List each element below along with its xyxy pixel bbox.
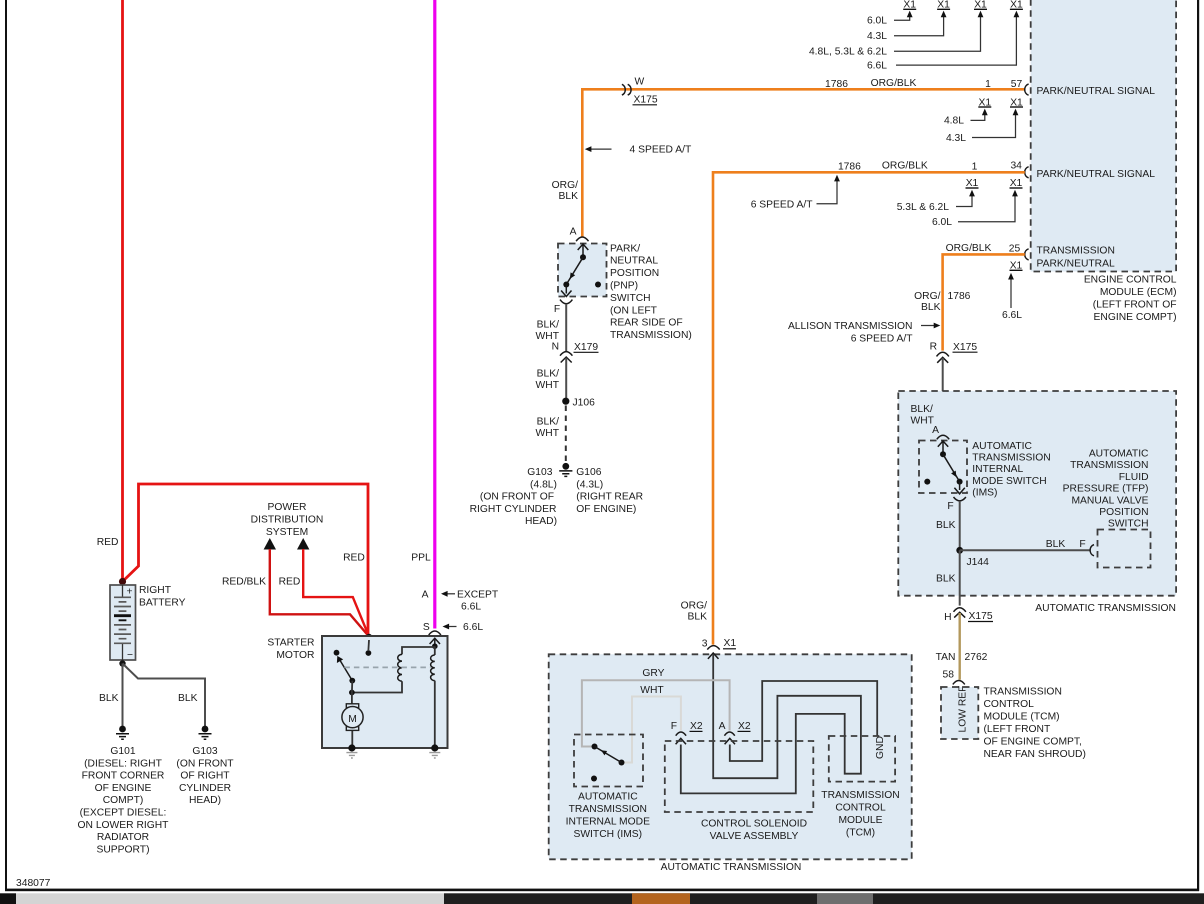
wire BLK/WHT N to J106	[565, 358, 567, 401]
svg-text:F: F	[671, 721, 677, 732]
svg-text:RIGHT: RIGHT	[139, 585, 172, 596]
connector X1 row4 (6.6L)	[1002, 260, 1023, 321]
svg-text:6.6L: 6.6L	[1002, 310, 1022, 321]
svg-text:(ON FRONT OF: (ON FRONT OF	[480, 492, 554, 503]
svg-text:ORG/: ORG/	[552, 180, 578, 191]
node starter ground right	[431, 744, 438, 751]
ground G103 (battery)	[199, 726, 212, 740]
svg-text:1786: 1786	[825, 79, 848, 90]
svg-text:MODE SWITCH: MODE SWITCH	[972, 476, 1046, 487]
wire BLK/WHT F to N	[565, 304, 567, 352]
svg-text:BLK: BLK	[921, 302, 941, 313]
wire BLK/WHT dashed J106 to ground	[565, 406, 567, 463]
svg-text:PARK/NEUTRAL: PARK/NEUTRAL	[1037, 259, 1115, 270]
svg-text:CYLINDER: CYLINDER	[179, 783, 231, 794]
svg-text:AUTOMATIC: AUTOMATIC	[1089, 449, 1149, 460]
connector S arc	[429, 631, 441, 635]
pin 3 arrow	[708, 653, 719, 659]
label ECM location	[1084, 275, 1177, 324]
svg-text:WHT: WHT	[640, 685, 664, 696]
svg-text:COMPT): COMPT)	[103, 795, 144, 806]
svg-text:TRANSMISSION: TRANSMISSION	[1070, 460, 1148, 471]
node battery positive junction	[119, 578, 126, 585]
connector pin 57 arc	[1025, 84, 1029, 95]
svg-text:348077: 348077	[16, 878, 51, 889]
svg-text:X2: X2	[690, 721, 703, 732]
svg-text:+: +	[127, 587, 133, 598]
svg-text:BLK/: BLK/	[537, 417, 559, 428]
svg-text:INTERNAL MODE: INTERNAL MODE	[566, 816, 650, 827]
wire RED branch to starter motor	[123, 484, 369, 636]
svg-text:SWITCH: SWITCH	[610, 293, 651, 304]
ground starter left	[346, 753, 357, 758]
ground G103/G106	[559, 463, 572, 477]
svg-text:ORG/BLK: ORG/BLK	[882, 160, 928, 171]
svg-text:6.0L: 6.0L	[867, 16, 887, 27]
svg-text:(ON FRONT: (ON FRONT	[176, 758, 234, 769]
svg-text:ORG/BLK: ORG/BLK	[946, 243, 992, 254]
svg-text:X175: X175	[634, 95, 658, 106]
wire WHT	[622, 697, 681, 763]
node switch contact left	[334, 650, 340, 656]
motor M	[342, 693, 363, 749]
svg-text:A: A	[932, 425, 939, 436]
node starter ground left	[348, 744, 355, 751]
svg-text:57: 57	[1011, 79, 1023, 90]
svg-text:1: 1	[985, 79, 991, 90]
svg-text:WHT: WHT	[536, 428, 560, 439]
svg-text:W: W	[635, 77, 645, 88]
svg-text:WHT: WHT	[536, 331, 560, 342]
svg-text:MODULE (ECM): MODULE (ECM)	[1100, 287, 1177, 298]
svg-text:ORG/: ORG/	[914, 291, 940, 302]
label G106 (4.3L)	[576, 467, 643, 515]
svg-text:ORG/BLK: ORG/BLK	[871, 78, 917, 89]
svg-text:OF ENGINE: OF ENGINE	[95, 783, 152, 794]
wire ORG/BLK 6-speed (to ECM 34)	[713, 172, 1025, 644]
module TCM bottom box	[829, 736, 895, 782]
svg-text:FRONT CORNER: FRONT CORNER	[82, 771, 165, 782]
svg-text:J144: J144	[967, 557, 990, 568]
svg-text:TRANSMISSION: TRANSMISSION	[984, 687, 1062, 698]
svg-text:REAR SIDE OF: REAR SIDE OF	[610, 318, 683, 329]
svg-text:OF ENGINE): OF ENGINE)	[576, 504, 636, 515]
svg-text:AUTOMATIC: AUTOMATIC	[972, 441, 1032, 452]
svg-text:R: R	[930, 342, 937, 353]
svg-text:(IMS): (IMS)	[972, 487, 997, 498]
svg-text:4.8L: 4.8L	[944, 116, 964, 127]
wire BLK F to J144	[959, 501, 961, 550]
svg-text:F: F	[947, 501, 953, 512]
svg-text:TAN: TAN	[936, 652, 956, 663]
arrow to power distribution (RED)	[297, 538, 309, 550]
svg-text:VALVE ASSEMBLY: VALVE ASSEMBLY	[710, 831, 799, 842]
module TRANSMISSION CONTROL MODULE (TCM)	[941, 687, 978, 739]
svg-text:6 SPEED A/T: 6 SPEED A/T	[751, 200, 814, 211]
connector pin 25 arc	[1025, 249, 1029, 260]
svg-text:AUTOMATIC TRANSMISSION: AUTOMATIC TRANSMISSION	[661, 862, 802, 873]
svg-text:1: 1	[972, 161, 978, 172]
pin A arrow	[725, 738, 735, 744]
wire BLK J144 down	[959, 550, 961, 605]
svg-text:PARK/NEUTRAL SIGNAL: PARK/NEUTRAL SIGNAL	[1037, 169, 1156, 180]
svg-text:(DIESEL: RIGHT: (DIESEL: RIGHT	[84, 758, 163, 769]
label IMS upper	[972, 441, 1050, 498]
wire RED/BLK	[270, 549, 369, 637]
switch PARK/NEUTRAL POSITION (PNP)	[558, 244, 607, 297]
X1 callouts row3	[897, 178, 1023, 228]
wire RED (starter S feed)	[303, 549, 369, 637]
svg-text:BLK: BLK	[936, 520, 956, 531]
svg-text:GND: GND	[875, 736, 886, 759]
svg-text:BLK: BLK	[178, 693, 198, 704]
svg-text:BATTERY: BATTERY	[139, 598, 186, 609]
svg-text:(ON LEFT: (ON LEFT	[610, 305, 658, 316]
svg-text:F: F	[1079, 539, 1085, 550]
svg-text:4.8L, 5.3L & 6.2L: 4.8L, 5.3L & 6.2L	[809, 47, 887, 58]
label TFP switch	[1063, 449, 1149, 530]
svg-text:3: 3	[702, 639, 708, 650]
svg-text:LOW REF: LOW REF	[958, 686, 969, 733]
svg-text:BLK/: BLK/	[911, 404, 933, 415]
svg-text:SWITCH: SWITCH	[1108, 519, 1149, 530]
svg-text:A: A	[719, 721, 726, 732]
wire PPL (vertical from top)	[433, 0, 436, 629]
svg-text:NEAR FAN SHROUD): NEAR FAN SHROUD)	[984, 749, 1086, 760]
svg-text:MOTOR: MOTOR	[276, 650, 314, 661]
svg-text:J106: J106	[573, 398, 596, 409]
svg-text:NEUTRAL: NEUTRAL	[610, 256, 658, 267]
node battery negative junction	[119, 660, 125, 666]
svg-text:BLK/: BLK/	[537, 369, 559, 380]
svg-text:N: N	[552, 342, 559, 353]
switch AUTOMATIC TRANSMISSION INTERNAL MODE SWITCH (IMS) upper	[919, 441, 967, 494]
svg-text:OF RIGHT: OF RIGHT	[180, 771, 230, 782]
arrow to power distribution (RED/BLK)	[264, 538, 276, 550]
connector W X175	[622, 77, 658, 106]
wire BLK to G103	[123, 664, 206, 730]
svg-text:6 SPEED A/T: 6 SPEED A/T	[851, 334, 914, 345]
svg-text:(LEFT FRONT: (LEFT FRONT	[984, 724, 1051, 735]
svg-text:6.6L: 6.6L	[867, 60, 887, 71]
svg-text:4 SPEED A/T: 4 SPEED A/T	[630, 145, 693, 156]
starter motor box	[322, 636, 448, 748]
svg-text:25: 25	[1009, 244, 1021, 255]
svg-text:(RIGHT REAR: (RIGHT REAR	[576, 492, 643, 503]
X1 callouts row2	[944, 97, 1023, 144]
solenoid coil right L2	[431, 655, 435, 681]
svg-text:58: 58	[943, 670, 955, 681]
node arm pivot	[349, 678, 355, 684]
svg-text:WHT: WHT	[911, 416, 935, 427]
svg-text:6.6L: 6.6L	[463, 622, 483, 633]
module ENGINE CONTROL MODULE (ECM)	[1031, 0, 1176, 272]
svg-text:STARTER: STARTER	[267, 638, 314, 649]
label TCM location	[984, 687, 1086, 761]
wire A|X2 to TCM GND	[730, 681, 877, 761]
svg-text:BLK: BLK	[936, 574, 956, 585]
label IMS bottom	[566, 791, 650, 840]
svg-text:(4.3L): (4.3L)	[576, 479, 603, 490]
svg-text:HEAD): HEAD)	[189, 795, 221, 806]
connector F arc on TFP	[1090, 545, 1094, 556]
svg-text:ENGINE CONTROL: ENGINE CONTROL	[1084, 275, 1177, 286]
switch arm	[340, 660, 353, 681]
ground starter right	[429, 753, 440, 758]
switch fixed contact stem	[367, 640, 370, 650]
svg-text:(LEFT FRONT OF: (LEFT FRONT OF	[1093, 300, 1177, 311]
svg-text:PARK/: PARK/	[610, 243, 640, 254]
switch IMS bottom	[574, 735, 643, 787]
svg-text:A: A	[570, 227, 577, 238]
svg-text:RED: RED	[97, 537, 119, 548]
svg-text:BLK/: BLK/	[537, 320, 559, 331]
node J106	[562, 398, 569, 405]
svg-text:X179: X179	[574, 342, 598, 353]
wire ORG/BLK 4-speed (PNP A to ECM 57)	[582, 89, 1025, 237]
connector 58 arc on TCM	[953, 681, 965, 685]
connector F arc under IMS	[954, 497, 966, 501]
switch TFP manual valve position	[1098, 530, 1151, 568]
svg-text:S: S	[423, 622, 430, 633]
svg-text:RED: RED	[343, 553, 365, 564]
svg-text:ENGINE COMPT): ENGINE COMPT)	[1094, 312, 1177, 323]
wire solenoid serpentine (3|X1 to F|X2)	[681, 654, 861, 793]
svg-text:BLK: BLK	[1046, 539, 1066, 550]
svg-text:ORG/: ORG/	[681, 601, 707, 612]
svg-text:POSITION: POSITION	[610, 268, 659, 279]
svg-text:PARK/NEUTRAL SIGNAL: PARK/NEUTRAL SIGNAL	[1037, 86, 1156, 97]
svg-text:DISTRIBUTION: DISTRIBUTION	[251, 515, 324, 526]
svg-text:BLK: BLK	[99, 693, 119, 704]
svg-text:HEAD): HEAD)	[525, 516, 557, 527]
svg-text:(PNP): (PNP)	[610, 281, 638, 292]
svg-text:G103: G103	[192, 746, 217, 757]
label G103 location	[176, 746, 234, 806]
solenoid coil left L1	[398, 654, 402, 681]
label POWER DISTRIBUTION SYSTEM	[251, 502, 324, 538]
label G103 (4.8L)	[470, 467, 557, 527]
svg-text:MODULE (TCM): MODULE (TCM)	[984, 712, 1060, 723]
svg-text:TRANSMISSION: TRANSMISSION	[821, 790, 899, 801]
svg-text:EXCEPT: EXCEPT	[457, 590, 499, 601]
svg-text:1786: 1786	[948, 291, 971, 302]
svg-text:MODULE: MODULE	[838, 815, 882, 826]
node solenoid coil junction	[432, 643, 438, 649]
connector F arc under PNP	[560, 300, 572, 304]
svg-text:SUPPORT): SUPPORT)	[96, 844, 149, 855]
svg-text:4.3L: 4.3L	[946, 133, 966, 144]
wire BLK J144 to TFP	[960, 549, 1090, 551]
node starter battery terminal	[366, 634, 372, 640]
svg-text:6.0L: 6.0L	[932, 217, 952, 228]
svg-text:TRANSMISSION): TRANSMISSION)	[610, 330, 692, 341]
node switch contact	[366, 650, 372, 656]
svg-text:X2: X2	[738, 721, 751, 732]
svg-text:H: H	[944, 612, 951, 623]
svg-text:RED/BLK: RED/BLK	[222, 577, 266, 588]
svg-text:2762: 2762	[965, 652, 988, 663]
svg-text:34: 34	[1010, 161, 1022, 172]
svg-text:G101: G101	[110, 746, 135, 757]
svg-text:F: F	[554, 304, 560, 315]
pin F arrow	[676, 738, 686, 744]
ground G101	[116, 726, 129, 740]
svg-text:1786: 1786	[838, 161, 861, 172]
wire GRY	[582, 680, 730, 746]
svg-text:RADIATOR: RADIATOR	[97, 832, 149, 843]
svg-text:AUTOMATIC: AUTOMATIC	[578, 791, 638, 802]
wire BLK/WHT R to IMS A	[942, 358, 944, 434]
svg-text:BLK: BLK	[559, 191, 579, 202]
svg-text:6.6L: 6.6L	[461, 602, 481, 613]
svg-text:POSITION: POSITION	[1099, 507, 1148, 518]
svg-text:SYSTEM: SYSTEM	[266, 527, 308, 538]
wire solenoid top link	[402, 646, 435, 655]
svg-text:PRESSURE (TFP): PRESSURE (TFP)	[1063, 484, 1149, 495]
svg-text:CONTROL: CONTROL	[835, 802, 886, 813]
svg-text:(EXCEPT DIESEL:: (EXCEPT DIESEL:	[80, 808, 167, 819]
wire RED battery feed (vertical from top)	[121, 0, 124, 582]
module AUTOMATIC TRANSMISSION box	[898, 391, 1176, 596]
svg-text:OF ENGINE COMPT,: OF ENGINE COMPT,	[984, 737, 1082, 748]
svg-text:TRANSMISSION: TRANSMISSION	[972, 453, 1050, 464]
svg-text:TRANSMISSION: TRANSMISSION	[569, 804, 647, 815]
svg-text:PPL: PPL	[411, 553, 431, 564]
module CONTROL SOLENOID VALVE ASSEMBLY	[665, 741, 814, 812]
wire BLK to G101	[122, 664, 124, 730]
label PNP switch	[610, 243, 692, 341]
svg-text:AUTOMATIC TRANSMISSION: AUTOMATIC TRANSMISSION	[1035, 603, 1176, 614]
wire coil L2 bottom to ground	[434, 681, 436, 748]
svg-text:SWITCH (IMS): SWITCH (IMS)	[573, 829, 642, 840]
wire TAN 2762	[959, 613, 961, 680]
wire coil L1 bottom to contact	[352, 681, 402, 692]
svg-text:X1: X1	[724, 638, 737, 649]
svg-text:ON LOWER RIGHT: ON LOWER RIGHT	[78, 820, 170, 831]
svg-text:BLK: BLK	[688, 612, 708, 623]
label G101 location	[78, 746, 170, 855]
pin S arrow into starter	[430, 638, 440, 644]
svg-text:−: −	[127, 650, 133, 661]
svg-text:POWER: POWER	[268, 502, 307, 513]
node J144	[956, 547, 963, 554]
X1 callouts row1	[809, 0, 1023, 71]
svg-text:FLUID: FLUID	[1119, 472, 1149, 483]
svg-text:TRANSMISSION: TRANSMISSION	[1037, 245, 1115, 256]
svg-text:X175: X175	[953, 342, 977, 353]
svg-text:(4.8L): (4.8L)	[530, 479, 557, 490]
svg-text:MANUAL VALVE: MANUAL VALVE	[1071, 495, 1148, 506]
connector pin 34 arc	[1025, 167, 1029, 178]
svg-text:CONTROL SOLENOID: CONTROL SOLENOID	[701, 819, 807, 830]
svg-text:A: A	[422, 590, 429, 601]
wire ORG/BLK Allison (ECM 25 to R X175)	[943, 254, 1025, 350]
svg-text:GRY: GRY	[642, 668, 664, 679]
svg-text:G103: G103	[527, 467, 552, 478]
svg-text:(TCM): (TCM)	[846, 827, 875, 838]
battery RIGHT BATTERY	[110, 585, 136, 661]
svg-text:G106: G106	[576, 467, 601, 478]
mechanical link dashed	[344, 666, 430, 668]
svg-text:INTERNAL: INTERNAL	[972, 464, 1023, 475]
label TCM bottom	[821, 790, 899, 839]
svg-text:WHT: WHT	[536, 380, 560, 391]
svg-text:ALLISON TRANSMISSION: ALLISON TRANSMISSION	[788, 321, 913, 332]
module AUTOMATIC TRANSMISSION bottom box	[549, 654, 912, 859]
svg-text:4.3L: 4.3L	[867, 31, 887, 42]
svg-text:CONTROL: CONTROL	[984, 699, 1035, 710]
svg-text:X175: X175	[969, 611, 993, 622]
svg-text:RED: RED	[279, 577, 301, 588]
svg-text:5.3L & 6.2L: 5.3L & 6.2L	[897, 202, 950, 213]
svg-text:RIGHT CYLINDER: RIGHT CYLINDER	[470, 504, 557, 515]
svg-text:M: M	[348, 714, 357, 725]
